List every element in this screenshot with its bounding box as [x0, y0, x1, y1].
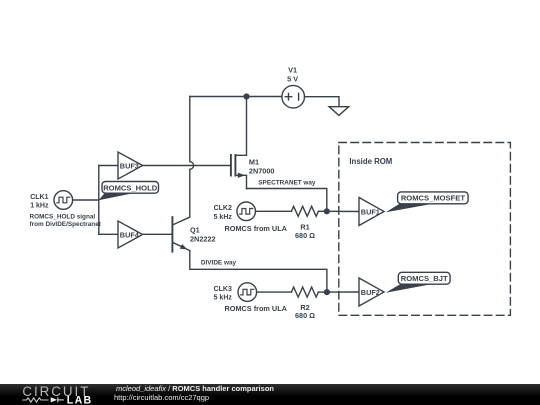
svg-text:CLK3: CLK3: [214, 286, 232, 293]
clock source CLK3: [214, 283, 257, 302]
svg-text:BUF2: BUF2: [361, 288, 380, 297]
svg-text:2N7000: 2N7000: [249, 166, 275, 175]
wire branch vertical BUF3/BUF4: [98, 166, 100, 235]
node R1/SPECTRANET junction: [324, 209, 329, 214]
footer bar: [0, 384, 540, 405]
svg-text:CLK2: CLK2: [214, 205, 232, 212]
wire to BUF4 input: [99, 233, 118, 235]
svg-text:5 kHz: 5 kHz: [214, 214, 233, 221]
svg-text:CLK1: CLK1: [30, 194, 48, 201]
svg-text:BUF4: BUF4: [120, 230, 140, 239]
wire R1 to node: [318, 210, 326, 212]
svg-text:from DivIDE/Spectranet: from DivIDE/Spectranet: [30, 221, 102, 228]
node M1 drain junction: [244, 94, 249, 99]
wire R2 to node: [318, 291, 327, 293]
clock source CLK2: [214, 202, 256, 221]
svg-text:Q1: Q1: [190, 225, 200, 234]
footer text line 1: [116, 385, 274, 393]
buffer BUF2: [359, 278, 384, 306]
net flag ROMCS_BJT: [386, 272, 450, 293]
resistor R1: [291, 206, 318, 240]
svg-text:ROMCS from ULA: ROMCS from ULA: [225, 304, 288, 313]
svg-text:5 kHz: 5 kHz: [214, 295, 233, 302]
wire node to BUF1: [327, 210, 359, 212]
wire V1 to ground: [305, 97, 340, 107]
svg-text:2N2222: 2N2222: [190, 234, 216, 243]
svg-text:LAB: LAB: [67, 394, 93, 405]
svg-text:DIVIDE way: DIVIDE way: [201, 260, 237, 267]
svg-text:M1: M1: [249, 158, 259, 167]
net flag ROMCS_MOSFET: [386, 192, 468, 212]
wire node to BUF2: [327, 291, 359, 293]
buffer BUF3: [118, 152, 143, 179]
svg-text:5 V: 5 V: [287, 74, 298, 83]
voltage source V1: [282, 65, 305, 108]
svg-text:SPECTRANET way: SPECTRANET way: [258, 180, 316, 187]
svg-text:ROMCS_HOLD: ROMCS_HOLD: [103, 184, 158, 193]
wire BUF4 output to Q1 base: [143, 233, 173, 235]
svg-text:ROMCS_HOLD signal: ROMCS_HOLD signal: [30, 214, 96, 221]
wire CLK2 to R1: [256, 210, 292, 212]
svg-text:V1: V1: [288, 65, 297, 74]
wire collector riser with hop over gate wire: [190, 97, 194, 218]
resistor R2: [291, 287, 318, 320]
wire BUF3 output to M1 gate: [143, 165, 231, 167]
wire top rail: [190, 96, 282, 98]
ground: [329, 107, 349, 116]
wire Q1 emitter to DIVIDE way: [190, 251, 327, 293]
wire M1 source to R1 node: [247, 189, 327, 212]
footer text line 2: [114, 394, 209, 402]
nmos transistor M1: [231, 97, 275, 189]
svg-text:ROMCS_BJT: ROMCS_BJT: [401, 274, 448, 283]
buffer BUF4: [118, 221, 143, 248]
svg-text:1 kHz: 1 kHz: [30, 203, 49, 210]
svg-text:BUF3: BUF3: [120, 161, 139, 170]
svg-text:R1: R1: [300, 222, 309, 231]
buffer BUF1: [359, 198, 384, 226]
svg-text:ROMCS_MOSFET: ROMCS_MOSFET: [401, 193, 465, 202]
svg-text:680 Ω: 680 Ω: [295, 311, 315, 320]
wire CLK3 to R2: [257, 291, 292, 293]
CircuitLab logo: [0, 383, 112, 405]
net flag ROMCS_HOLD: [99, 182, 159, 201]
svg-text:ROMCS from ULA: ROMCS from ULA: [225, 224, 288, 233]
clock source CLK1: [30, 191, 72, 210]
wire to BUF3 input: [99, 165, 118, 167]
npn transistor Q1: [172, 217, 215, 252]
svg-text:BUF1: BUF1: [361, 207, 380, 216]
svg-text:680 Ω: 680 Ω: [295, 231, 315, 240]
dashed box Inside ROM: [339, 143, 511, 316]
svg-text:Inside ROM: Inside ROM: [349, 157, 392, 166]
wire CLK1 to branch node: [73, 199, 99, 201]
node R2/DIVIDE junction: [325, 290, 330, 295]
